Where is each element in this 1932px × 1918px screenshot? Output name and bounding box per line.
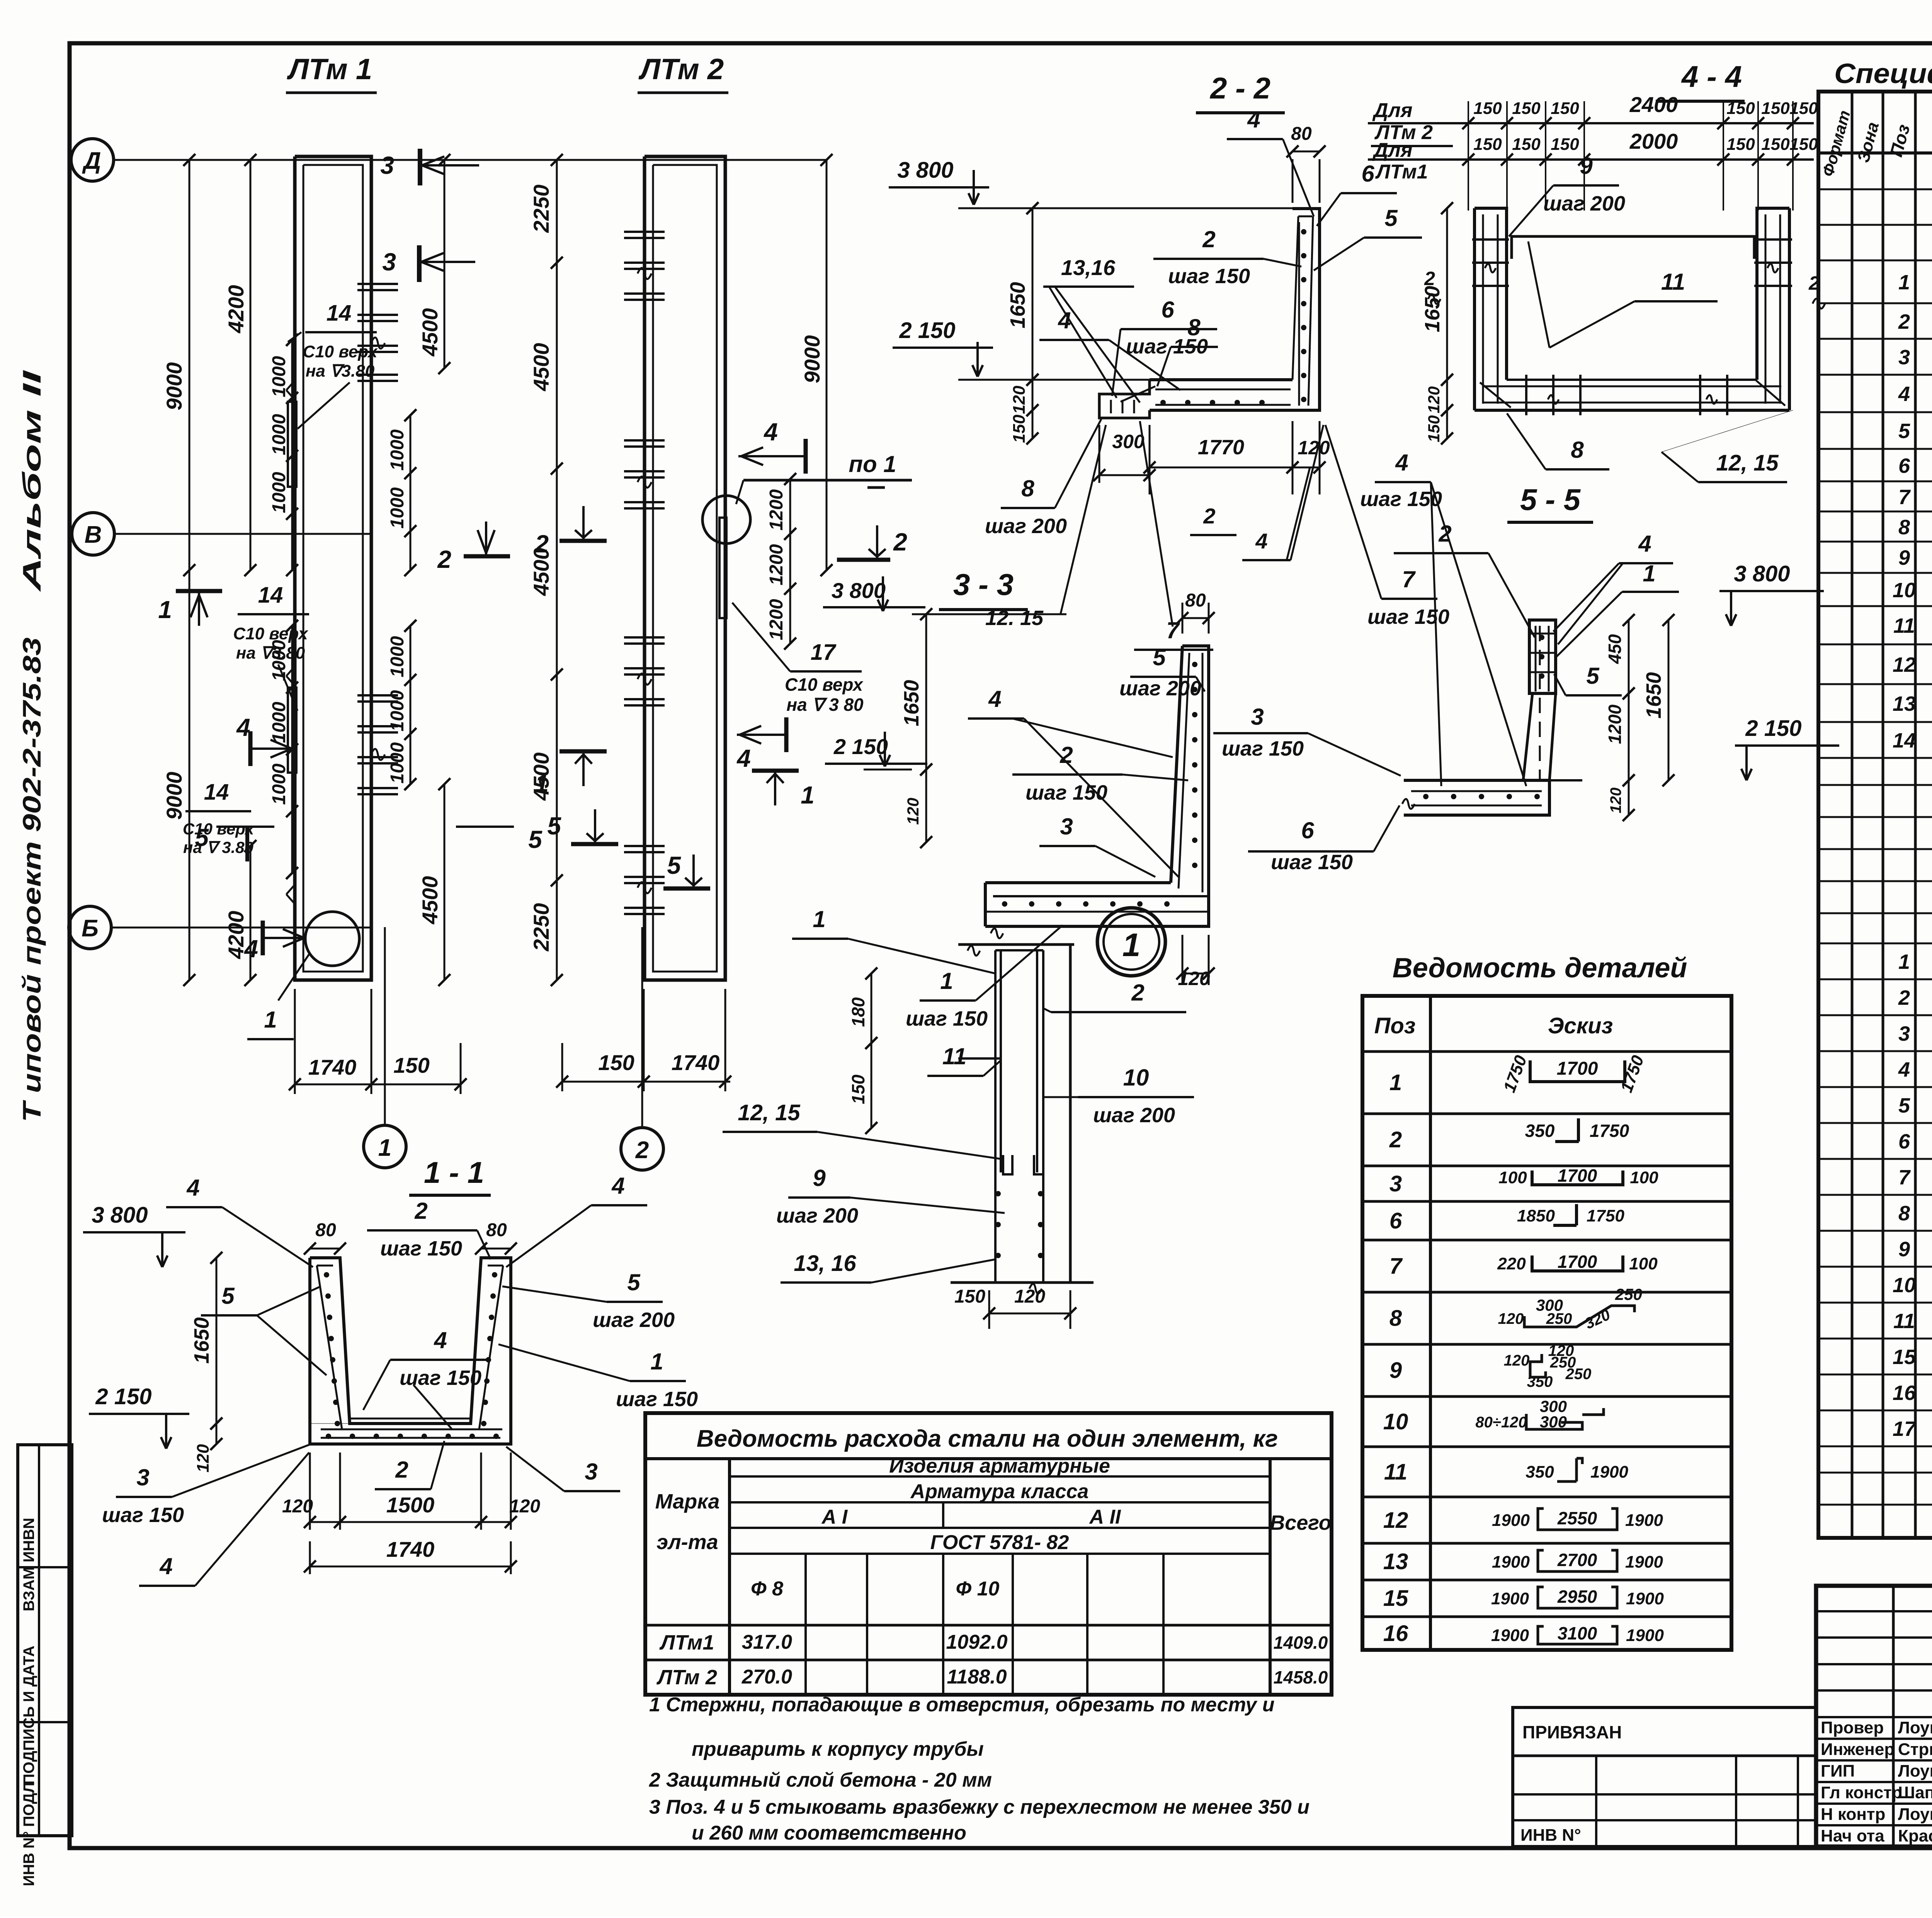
svg-text:16: 16	[1383, 1621, 1408, 1646]
svg-text:Марка: Марка	[655, 1490, 720, 1513]
sketch row 7 hat-bar	[1497, 1252, 1658, 1273]
svg-text:шаг 150: шаг 150	[1360, 488, 1442, 511]
svg-text:7: 7	[1898, 486, 1911, 509]
svg-text:150: 150	[1726, 135, 1755, 154]
svg-text:ЛТм 1: ЛТм 1	[287, 53, 372, 86]
svg-text:250: 250	[1546, 1310, 1572, 1327]
svg-text:и 260 мм соответственно: и 260 мм соответственно	[692, 1822, 966, 1844]
svg-text:120: 120	[904, 798, 922, 825]
svg-text:150: 150	[393, 1053, 429, 1077]
section 3-3 dim 80 top	[1176, 590, 1214, 634]
svg-text:1000: 1000	[387, 690, 408, 731]
svg-text:3 800: 3 800	[832, 578, 886, 603]
ЛТм2 dimension 9000 right	[800, 154, 833, 576]
svg-text:2: 2	[1389, 1127, 1402, 1152]
svg-text:9: 9	[1898, 546, 1910, 569]
svg-text:2400: 2400	[1629, 92, 1678, 117]
ЛТм1 right chain 1000 upper	[387, 409, 417, 576]
svg-text:150: 150	[954, 1286, 985, 1307]
svg-text:9000: 9000	[162, 772, 186, 820]
axis line Б	[111, 927, 371, 929]
svg-text:1750: 1750	[1587, 1206, 1624, 1225]
svg-text:150: 150	[1761, 135, 1790, 154]
svg-text:1 Стержни, попадающие в от: 1 Стержни, попадающие в отверстия, обрез…	[649, 1694, 1275, 1716]
svg-text:13: 13	[1383, 1549, 1408, 1574]
svg-text:2: 2	[414, 1198, 427, 1224]
svg-text:13, 16: 13, 16	[794, 1251, 856, 1276]
section 2-2 title	[1196, 71, 1285, 113]
sketch row 11 L-hook	[1526, 1458, 1628, 1481]
section 2-2 left dim 1650/120/150	[1006, 202, 1039, 444]
svg-text:16: 16	[1893, 1381, 1916, 1405]
svg-text:2 - 2: 2 - 2	[1209, 71, 1270, 105]
ЛТм1 right dimension 4500 lower	[418, 778, 451, 986]
svg-text:4: 4	[236, 714, 250, 741]
svg-text:ЛТм1: ЛТм1	[1375, 161, 1428, 183]
svg-text:10: 10	[1893, 1274, 1916, 1297]
section 2-2 wall and floor outline	[1099, 209, 1320, 418]
svg-text:1000: 1000	[269, 763, 289, 805]
svg-text:шаг 150: шаг 150	[1222, 737, 1304, 760]
svg-text:Поз: Поз	[1374, 1013, 1416, 1038]
ЛТм2 section marks 2,1,5,4	[534, 418, 907, 888]
svg-text:С10 верх: С10 верх	[785, 674, 864, 695]
axis line Д	[114, 159, 827, 161]
svg-text:80: 80	[486, 1220, 507, 1240]
svg-text:Лоуцкер: Лоуцкер	[1898, 1718, 1932, 1737]
svg-text:шаг 200: шаг 200	[776, 1204, 858, 1227]
svg-text:150: 150	[1726, 99, 1755, 118]
svg-text:ИНВ N° ПОДЛ: ИНВ N° ПОДЛ	[20, 1782, 37, 1886]
svg-text:2: 2	[437, 545, 451, 573]
svg-text:4500: 4500	[418, 876, 442, 925]
section 1-1 level 2150	[89, 1384, 189, 1449]
svg-text:1900: 1900	[1625, 1511, 1663, 1530]
svg-text:15: 15	[1893, 1345, 1916, 1369]
svg-text:С10 верх: С10 верх	[183, 820, 255, 838]
svg-text:3: 3	[382, 248, 396, 276]
svg-text:12, 15: 12, 15	[1716, 450, 1779, 476]
section 1-1 rebar dots	[321, 1272, 500, 1439]
left margin rotated text: Типовой проект 902-2-375.83 Альбом II	[17, 370, 46, 1122]
ЛТм2 label 17	[732, 603, 864, 715]
section 2-2 labels middle	[1039, 226, 1301, 403]
svg-text:2700: 2700	[1557, 1550, 1597, 1570]
svg-text:эл-та: эл-та	[656, 1531, 718, 1554]
section 2-2 dim 80 top	[1286, 124, 1325, 203]
svg-text:на ∇3.80: на ∇3.80	[236, 644, 305, 663]
svg-text:1092.0: 1092.0	[946, 1631, 1007, 1653]
svg-text:Для: Для	[1372, 139, 1413, 161]
svg-text:1900: 1900	[1491, 1589, 1529, 1608]
sketch row 3 hat-bar	[1498, 1165, 1658, 1187]
section 3-3 rebar	[991, 653, 1202, 938]
svg-text:1650: 1650	[1006, 282, 1029, 328]
section mark 4 bottom	[236, 714, 304, 963]
svg-text:150: 150	[848, 1074, 868, 1104]
ЛТм1 bottom dimension 1740/150	[289, 989, 466, 1094]
svg-text:шаг 200: шаг 200	[1543, 192, 1625, 215]
svg-text:Б: Б	[82, 915, 99, 942]
svg-text:8: 8	[1389, 1306, 1402, 1331]
svg-text:Изделия арматурные: Изделия арматурные	[889, 1455, 1110, 1477]
svg-text:5: 5	[627, 1269, 641, 1295]
ЛТм1 dimension 4200 upper	[224, 154, 257, 576]
svg-text:150: 150	[598, 1050, 634, 1075]
section 2-2 labels right	[1227, 107, 1422, 270]
svg-text:5: 5	[667, 851, 681, 879]
svg-text:80÷120: 80÷120	[1475, 1414, 1527, 1431]
svg-text:А I: А I	[821, 1506, 848, 1528]
section 5-5 level 2150	[1735, 716, 1839, 780]
svg-text:250: 250	[1615, 1285, 1642, 1303]
svg-text:Арматура класса: Арматура класса	[910, 1480, 1089, 1503]
svg-text:шаг 150: шаг 150	[1271, 851, 1353, 874]
svg-text:15: 15	[1383, 1586, 1408, 1611]
svg-text:5: 5	[1898, 1094, 1910, 1117]
svg-text:1000: 1000	[269, 702, 289, 743]
svg-text:Ф 10: Ф 10	[956, 1578, 1000, 1600]
svg-text:8: 8	[1021, 476, 1034, 501]
ЛТм2 по 1 detail circle on right edge	[702, 451, 912, 618]
svg-text:3: 3	[1898, 1022, 1910, 1045]
specification table grid	[1818, 92, 1932, 1538]
svg-text:150: 150	[1551, 99, 1579, 118]
svg-text:120: 120	[1425, 386, 1443, 413]
sketch row 1 U-bar	[1500, 1053, 1648, 1095]
svg-text:1: 1	[535, 770, 549, 797]
ЛТм1 label 14 lower	[183, 780, 255, 856]
title block outer	[1816, 1586, 1932, 1847]
section 5-5 title	[1507, 482, 1593, 522]
ЛТм1 label 14 middle	[233, 583, 309, 711]
section 2-2 rebar dots and bars	[1111, 216, 1313, 413]
ЛТм1 bottom axis circle 1	[364, 927, 406, 1168]
svg-text:3 - 3: 3 - 3	[953, 567, 1014, 601]
node detail dims	[848, 967, 1077, 1329]
svg-text:8: 8	[1898, 1202, 1910, 1225]
svg-text:на ∇ 3.80: на ∇ 3.80	[183, 838, 253, 856]
sketch row 9 step-bar	[1504, 1342, 1592, 1390]
section 1-1 bottom dims	[282, 1453, 540, 1574]
section 1-1 labels	[102, 1173, 698, 1586]
section 1-1 level 3800	[83, 1203, 185, 1267]
axis line В	[114, 533, 371, 535]
svg-text:1850: 1850	[1517, 1206, 1555, 1225]
svg-text:ЛТм1: ЛТм1	[659, 1631, 714, 1654]
svg-text:450: 450	[1605, 634, 1625, 664]
svg-text:3 Поз. 4 и 5 стыковать враз: 3 Поз. 4 и 5 стыковать вразбежку с перех…	[649, 1796, 1310, 1818]
svg-text:6: 6	[1361, 161, 1374, 187]
section mark 3-3 top	[380, 149, 479, 282]
svg-text:1: 1	[1643, 561, 1655, 586]
notes text	[649, 1694, 1310, 1844]
svg-text:1700: 1700	[1557, 1058, 1598, 1079]
node detail labels	[723, 906, 1194, 1283]
svg-text:120: 120	[509, 1496, 540, 1517]
svg-text:шаг 150: шаг 150	[906, 1007, 988, 1030]
svg-text:1900: 1900	[1491, 1626, 1529, 1645]
svg-text:150: 150	[1473, 135, 1502, 154]
ЛТм2 rebar ticks left side	[624, 232, 665, 914]
svg-text:1770: 1770	[1198, 436, 1244, 459]
svg-text:1: 1	[650, 1349, 663, 1374]
svg-text:1200: 1200	[1605, 704, 1625, 744]
svg-text:4: 4	[1255, 529, 1267, 553]
steel usage table	[645, 1413, 1332, 1695]
svg-text:12: 12	[1383, 1508, 1408, 1533]
section 5-5 dims right	[1605, 614, 1675, 821]
svg-text:3100: 3100	[1558, 1623, 1597, 1643]
sketch row 8 z-bar	[1498, 1285, 1642, 1332]
svg-text:1000: 1000	[269, 472, 289, 513]
svg-text:Ведомость деталей: Ведомость деталей	[1393, 953, 1687, 984]
specification table row lines	[1818, 189, 1932, 1505]
ЛТм1 dimension 4200 lower	[224, 840, 257, 986]
svg-text:120: 120	[194, 1444, 213, 1473]
section mark 1 left inner	[158, 591, 222, 626]
svg-text:6: 6	[1161, 297, 1174, 323]
svg-text:8: 8	[1571, 437, 1584, 463]
svg-text:1650: 1650	[190, 1317, 213, 1364]
svg-text:2: 2	[534, 530, 549, 558]
svg-text:2 150: 2 150	[1745, 716, 1801, 741]
svg-text:150: 150	[1789, 135, 1818, 154]
svg-text:4: 4	[1247, 107, 1260, 133]
svg-text:4200: 4200	[224, 285, 248, 334]
svg-text:2: 2	[893, 528, 907, 556]
svg-text:1900: 1900	[1492, 1553, 1530, 1571]
specification table header texts	[1819, 108, 1932, 178]
svg-text:А II: А II	[1089, 1506, 1121, 1528]
ЛТм1 left dimension chain 9000	[162, 154, 196, 986]
specification table title	[1834, 58, 1932, 89]
svg-text:150: 150	[1761, 99, 1790, 118]
svg-text:С10 верх: С10 верх	[303, 342, 378, 361]
svg-text:3 800: 3 800	[897, 158, 953, 183]
svg-text:1700: 1700	[1558, 1165, 1597, 1186]
svg-text:по 1: по 1	[849, 451, 896, 477]
svg-text:14: 14	[327, 301, 352, 326]
svg-text:7: 7	[1402, 566, 1416, 592]
svg-text:6: 6	[1898, 1130, 1910, 1153]
axis marker Б	[69, 906, 111, 949]
svg-text:Эскиз: Эскиз	[1548, 1013, 1613, 1038]
svg-text:Шапиро: Шапиро	[1898, 1783, 1932, 1802]
svg-text:Красавин: Красавин	[1898, 1826, 1932, 1845]
section 5-5 level 3800	[1719, 561, 1824, 626]
svg-text:300: 300	[1540, 1413, 1567, 1431]
svg-text:2: 2	[1898, 310, 1910, 333]
ЛТм1 bottom node circle	[247, 912, 359, 1039]
svg-text:180: 180	[848, 997, 868, 1027]
svg-text:Всего: Всего	[1270, 1511, 1332, 1534]
svg-text:1740: 1740	[672, 1050, 720, 1075]
svg-text:1: 1	[158, 596, 172, 623]
svg-text:6: 6	[1389, 1208, 1402, 1233]
svg-text:350: 350	[1527, 1373, 1553, 1390]
section 5-5 wall rebar dots	[1528, 626, 1557, 691]
svg-text:шаг 150: шаг 150	[1367, 605, 1449, 629]
svg-text:1650: 1650	[1642, 672, 1665, 719]
svg-text:8: 8	[1898, 516, 1910, 539]
section 1-1 dim 80 tops	[304, 1220, 517, 1255]
svg-text:3: 3	[1251, 704, 1264, 730]
svg-text:150: 150	[1789, 99, 1818, 118]
svg-text:ИНВ N°: ИНВ N°	[1520, 1826, 1581, 1845]
svg-text:ЛТм 2: ЛТм 2	[638, 53, 724, 86]
svg-text:150: 150	[1425, 415, 1443, 442]
svg-text:6: 6	[1301, 817, 1314, 843]
svg-text:1700: 1700	[1558, 1252, 1597, 1272]
ЛТм2 bottom axis circle 2	[621, 927, 663, 1170]
svg-text:10: 10	[1123, 1065, 1149, 1091]
svg-text:шаг 200: шаг 200	[593, 1308, 675, 1332]
svg-text:1200: 1200	[766, 544, 787, 585]
svg-text:9000: 9000	[800, 335, 824, 384]
svg-text:шаг 150: шаг 150	[1026, 781, 1107, 804]
svg-text:1500: 1500	[386, 1493, 435, 1517]
section 3-3 labels	[906, 644, 1401, 1030]
svg-text:1900: 1900	[1590, 1463, 1628, 1481]
svg-text:ГОСТ 5781- 82: ГОСТ 5781- 82	[930, 1531, 1069, 1554]
axis marker В	[72, 513, 114, 555]
svg-text:4: 4	[611, 1173, 624, 1199]
svg-text:1740: 1740	[308, 1055, 357, 1079]
svg-text:150: 150	[1473, 99, 1502, 118]
svg-text:шаг 150: шаг 150	[400, 1366, 481, 1390]
svg-text:1750: 1750	[1590, 1121, 1629, 1141]
ЛТм2 dims 1200x3 right	[766, 473, 796, 649]
svg-text:2250: 2250	[529, 185, 553, 233]
svg-text:ЛТм 2: ЛТм 2	[656, 1666, 717, 1689]
svg-text:ВЗАМ ИНВN: ВЗАМ ИНВN	[20, 1518, 37, 1611]
sketch row 15 U-hooks	[1491, 1587, 1664, 1608]
title block left grid	[1816, 1586, 1932, 1847]
svg-text:Инженер: Инженер	[1821, 1740, 1895, 1759]
svg-text:С10 верх: С10 верх	[233, 624, 308, 643]
ЛТм2 bottom dimension 150/1740	[556, 989, 731, 1091]
svg-text:2: 2	[1424, 268, 1435, 289]
svg-text:120: 120	[1607, 788, 1624, 814]
svg-text:1900: 1900	[1626, 1626, 1664, 1645]
svg-text:1000: 1000	[387, 636, 408, 677]
svg-text:4: 4	[243, 935, 258, 963]
section mark 5 pair lower	[195, 824, 543, 861]
svg-text:100: 100	[1498, 1168, 1527, 1187]
svg-text:ГИП: ГИП	[1821, 1762, 1855, 1780]
svg-text:ПОДПИСЬ И ДАТА: ПОДПИСЬ И ДАТА	[20, 1646, 37, 1785]
svg-text:Гл констр: Гл констр	[1821, 1783, 1902, 1802]
svg-text:3 800: 3 800	[1734, 561, 1790, 586]
svg-text:4500: 4500	[418, 308, 442, 357]
svg-text:13: 13	[1893, 692, 1916, 715]
view ЛТм1 column outline	[295, 156, 371, 980]
sketch row 16 U-hooks	[1491, 1623, 1664, 1645]
svg-text:8: 8	[1187, 314, 1201, 340]
section 5-5 wall upper and slab	[1402, 620, 1582, 815]
svg-text:12, 15: 12, 15	[738, 1100, 800, 1125]
svg-text:1200: 1200	[766, 599, 787, 640]
svg-text:5: 5	[547, 812, 561, 840]
svg-text:2550: 2550	[1557, 1508, 1597, 1528]
svg-text:100: 100	[1629, 1254, 1658, 1273]
svg-text:приварить к корпусу трубы: приварить к корпусу трубы	[692, 1738, 984, 1760]
svg-text:на ∇3.80: на ∇3.80	[306, 362, 375, 381]
svg-text:1000: 1000	[387, 742, 408, 783]
svg-text:10: 10	[1383, 1409, 1408, 1434]
svg-text:4: 4	[1395, 450, 1408, 476]
svg-text:2: 2	[1131, 980, 1144, 1006]
svg-text:1000: 1000	[269, 356, 289, 397]
svg-text:9: 9	[1580, 153, 1593, 179]
axis marker Д	[71, 139, 114, 181]
left edge stamp strip ИНВ/ПОДПИСЬ cells	[18, 1445, 72, 1886]
section 2-2 bottom labels	[985, 419, 1449, 650]
svg-text:шаг 150: шаг 150	[380, 1237, 462, 1260]
svg-text:9: 9	[1898, 1238, 1910, 1261]
section 5-5 labels	[1360, 450, 1679, 786]
svg-text:100: 100	[1630, 1168, 1658, 1187]
svg-text:Лоуцкер: Лоуцкер	[1898, 1805, 1932, 1824]
svg-text:1409.0: 1409.0	[1274, 1633, 1328, 1653]
svg-text:1000: 1000	[387, 429, 408, 471]
svg-text:3: 3	[1898, 346, 1910, 369]
svg-text:2: 2	[635, 1137, 649, 1164]
svg-text:350: 350	[1526, 1463, 1554, 1481]
svg-text:120: 120	[282, 1496, 313, 1517]
svg-text:10: 10	[1893, 579, 1916, 602]
svg-text:4: 4	[1058, 307, 1071, 333]
parts list table Ведомость деталей	[1362, 953, 1731, 1650]
svg-text:120: 120	[1504, 1352, 1530, 1369]
svg-text:Лоуцкер: Лоуцкер	[1898, 1762, 1932, 1780]
svg-text:5: 5	[195, 824, 209, 851]
svg-text:Ф 8: Ф 8	[751, 1578, 783, 1600]
svg-text:3: 3	[585, 1459, 597, 1485]
svg-text:2: 2	[395, 1457, 408, 1483]
svg-text:17: 17	[811, 640, 837, 665]
svg-text:14: 14	[1893, 729, 1916, 752]
svg-text:120: 120	[1498, 1310, 1524, 1327]
svg-text:1: 1	[813, 906, 825, 932]
svg-text:4: 4	[434, 1327, 447, 1353]
svg-text:1: 1	[264, 1007, 277, 1033]
section 5-5 bottom label 6	[1248, 805, 1400, 874]
svg-text:4: 4	[736, 744, 751, 772]
section 4-4 labels	[1424, 153, 1825, 482]
svg-text:1188.0: 1188.0	[947, 1666, 1007, 1688]
svg-text:1 - 1: 1 - 1	[424, 1155, 484, 1189]
svg-text:11: 11	[1893, 1310, 1915, 1333]
svg-text:ПРИВЯЗАН: ПРИВЯЗАН	[1522, 1722, 1622, 1742]
svg-text:Нач ота: Нач ота	[1821, 1826, 1884, 1845]
svg-text:шаг 200: шаг 200	[1093, 1104, 1175, 1127]
svg-text:1: 1	[1898, 271, 1910, 294]
svg-text:1650: 1650	[1421, 286, 1444, 332]
svg-text:2 150: 2 150	[899, 318, 955, 343]
svg-text:1: 1	[940, 968, 953, 994]
svg-text:11: 11	[942, 1043, 966, 1069]
svg-text:Стригина: Стригина	[1898, 1740, 1932, 1759]
sketch row 10 hook-bar	[1475, 1397, 1604, 1431]
svg-text:4 - 4: 4 - 4	[1681, 59, 1742, 93]
svg-text:150: 150	[1010, 415, 1029, 443]
ЛТм1 right chain 1000 lower	[387, 620, 417, 790]
svg-text:13,16: 13,16	[1061, 255, 1116, 280]
svg-text:4: 4	[1898, 382, 1910, 406]
svg-text:Для: Для	[1372, 99, 1413, 122]
